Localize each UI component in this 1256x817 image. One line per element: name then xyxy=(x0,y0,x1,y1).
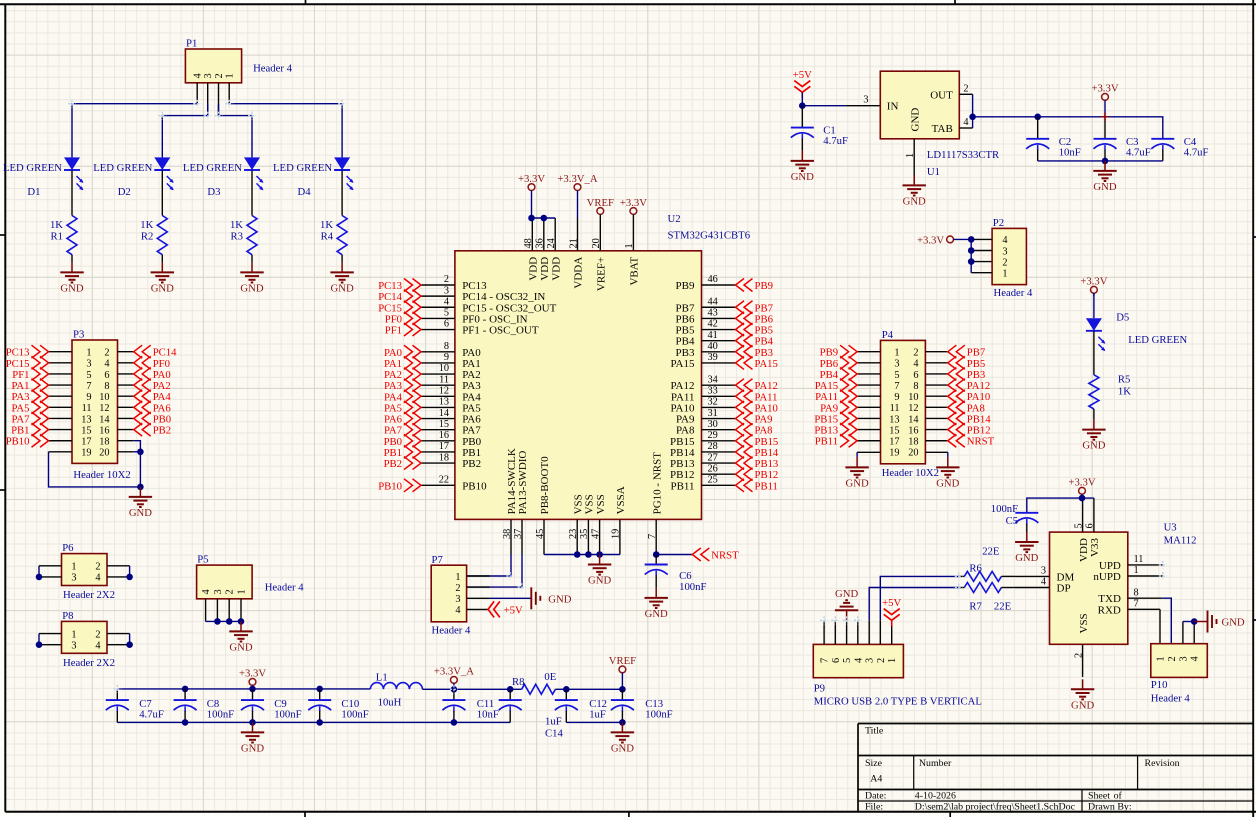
text MICRO USB 2.0 TYPE B VERTICAL xyxy=(814,696,982,708)
svg-text:5: 5 xyxy=(894,370,899,381)
net label PB12 xyxy=(736,468,779,482)
net label PA11 xyxy=(736,390,778,404)
text Header 4 xyxy=(1151,693,1191,705)
power port +3.3V xyxy=(518,173,545,218)
svg-text:R2: R2 xyxy=(141,231,153,243)
svg-text:4: 4 xyxy=(1190,656,1201,661)
text LED GREEN xyxy=(3,162,62,174)
svg-text:D5: D5 xyxy=(1116,312,1129,324)
svg-text:LD1117S33CTR: LD1117S33CTR xyxy=(927,149,1000,161)
junction xyxy=(968,247,975,254)
svg-text:D:\sem2\lab project\freq\Sheet: D:\sem2\lab project\freq\Sheet1.SchDoc xyxy=(915,802,1076,813)
wire xyxy=(116,689,118,700)
svg-text:C5: C5 xyxy=(1006,515,1018,527)
pin P4.6 xyxy=(925,373,947,375)
pin U2.44 PB7 xyxy=(676,296,736,314)
junction xyxy=(653,551,660,558)
svg-text:2: 2 xyxy=(104,348,109,359)
junction xyxy=(238,618,245,625)
net label PA7 xyxy=(11,412,48,426)
pin P3.11 xyxy=(49,406,73,408)
pin P2.2 xyxy=(971,261,992,263)
text Drawn By xyxy=(1088,802,1132,813)
wire xyxy=(655,575,657,588)
pin P3.13 xyxy=(49,417,73,419)
pin P3.9 xyxy=(49,395,73,397)
pin U3.2 VSS xyxy=(1073,613,1089,677)
junction xyxy=(619,719,626,726)
svg-text:20: 20 xyxy=(591,238,602,248)
svg-text:10nF: 10nF xyxy=(1059,146,1081,158)
svg-text:10: 10 xyxy=(908,392,918,403)
net label PB12 xyxy=(948,423,991,437)
wire xyxy=(49,452,141,487)
svg-text:2: 2 xyxy=(1167,656,1178,661)
text U2 xyxy=(668,213,681,225)
power port +3.3V xyxy=(1091,83,1118,117)
svg-text:VSSA: VSSA xyxy=(615,486,627,514)
capacitor C4 xyxy=(1151,136,1208,159)
net label PA4 xyxy=(384,390,421,404)
pin P6.3 xyxy=(39,576,62,578)
text D2 xyxy=(118,186,131,198)
net label PB11 xyxy=(736,479,778,493)
svg-text:VDDA: VDDA xyxy=(573,257,585,289)
wire xyxy=(970,239,972,272)
svg-text:13: 13 xyxy=(439,397,449,408)
svg-text:2: 2 xyxy=(913,348,918,359)
text Header 4 xyxy=(994,287,1034,299)
wire xyxy=(801,92,803,105)
text D3 xyxy=(207,186,220,198)
svg-text:R8: R8 xyxy=(512,676,524,688)
svg-text:35: 35 xyxy=(579,529,590,539)
pin P4.13 xyxy=(857,417,880,419)
svg-text:P1: P1 xyxy=(186,38,197,50)
pin P8.3 xyxy=(39,644,62,646)
pin P3.20 xyxy=(118,451,134,453)
power port +3.3V_A xyxy=(557,173,597,218)
svg-text:44: 44 xyxy=(708,296,718,307)
wire xyxy=(1104,117,1106,139)
svg-text:4: 4 xyxy=(853,658,864,663)
svg-text:R7: R7 xyxy=(969,600,982,612)
svg-text:4: 4 xyxy=(444,296,449,307)
wire xyxy=(453,711,455,722)
svg-text:1: 1 xyxy=(887,658,898,663)
pin U2.6 PF1 - OSC_OUT xyxy=(421,319,539,337)
capacitor C13 xyxy=(611,698,673,721)
svg-text:3: 3 xyxy=(86,359,91,370)
svg-text:3: 3 xyxy=(865,658,876,663)
wire xyxy=(162,104,207,158)
svg-text:Header 4: Header 4 xyxy=(432,625,472,637)
svg-text:3: 3 xyxy=(1178,656,1189,661)
pin U2.31 PA9 xyxy=(676,408,736,426)
svg-text:VDD: VDD xyxy=(528,257,540,281)
power port +3.3V xyxy=(239,668,266,689)
net label PB11 xyxy=(815,434,857,448)
net label PB15 xyxy=(814,412,857,426)
svg-text:8: 8 xyxy=(444,341,449,352)
wire xyxy=(116,711,118,722)
svg-text:8: 8 xyxy=(1134,587,1139,598)
svg-text:1: 1 xyxy=(1002,269,1007,280)
pin P9.7 xyxy=(823,620,825,644)
svg-text:Header 4: Header 4 xyxy=(1151,693,1191,705)
text Header 2X2 xyxy=(63,657,115,669)
connector P2 xyxy=(992,217,1026,285)
pin U3.8 TXD xyxy=(1098,587,1163,605)
svg-text:Header 4: Header 4 xyxy=(994,287,1034,299)
pin P3.12 xyxy=(118,406,134,408)
ground xyxy=(1015,532,1039,564)
wire xyxy=(134,441,141,487)
resistor R1 xyxy=(50,216,77,255)
pin P1.1 xyxy=(228,83,230,104)
pin P3.8 xyxy=(118,384,134,386)
svg-text:PB11: PB11 xyxy=(755,480,778,492)
wire xyxy=(1159,609,1161,643)
ground xyxy=(240,262,264,294)
pin P4.15 xyxy=(857,429,880,431)
pin P3.19 xyxy=(49,451,73,453)
svg-text:PF1 - OSC_OUT: PF1 - OSC_OUT xyxy=(462,325,539,337)
capacitor C3 xyxy=(1094,136,1151,159)
svg-text:7: 7 xyxy=(820,658,831,663)
net label PA2 xyxy=(134,379,171,393)
wire xyxy=(129,566,131,577)
svg-text:41: 41 xyxy=(708,330,718,341)
text Date xyxy=(865,790,886,801)
text D5 xyxy=(1116,312,1129,324)
pin P10.4 xyxy=(1193,622,1195,644)
svg-text:1: 1 xyxy=(455,572,460,583)
text Header 2X2 xyxy=(63,589,115,601)
svg-text:14: 14 xyxy=(99,414,109,425)
svg-text:PB10: PB10 xyxy=(378,480,402,492)
svg-text:GND: GND xyxy=(611,742,634,754)
pin P4.8 xyxy=(925,384,947,386)
svg-text:GND: GND xyxy=(229,641,252,653)
svg-text:GND: GND xyxy=(1222,617,1245,629)
svg-text:9: 9 xyxy=(894,392,899,403)
wire xyxy=(341,170,343,215)
text LED GREEN xyxy=(1128,334,1187,346)
svg-text:39: 39 xyxy=(708,352,718,363)
svg-text:4: 4 xyxy=(95,573,100,584)
wire xyxy=(72,104,197,158)
capacitor C10 xyxy=(308,698,369,721)
pin P7.4 xyxy=(467,608,489,610)
svg-text:0E: 0E xyxy=(544,671,556,683)
text Header 4 xyxy=(432,625,472,637)
pin U3.1 nUPD xyxy=(1093,565,1162,583)
svg-text:15: 15 xyxy=(439,419,449,430)
svg-text:7: 7 xyxy=(86,381,91,392)
pin P2.3 xyxy=(971,250,992,252)
pin P2.4 xyxy=(971,238,992,240)
svg-text:6: 6 xyxy=(104,370,109,381)
svg-text:6: 6 xyxy=(1085,523,1096,528)
capacitor C11 xyxy=(442,698,498,721)
text U3 xyxy=(1164,522,1177,534)
svg-text:GND: GND xyxy=(588,575,611,587)
svg-text:GND: GND xyxy=(548,593,571,605)
pin P1.4 xyxy=(196,83,198,104)
svg-text:3: 3 xyxy=(894,359,899,370)
svg-text:1: 1 xyxy=(71,562,76,573)
svg-text:PF1: PF1 xyxy=(385,325,402,337)
pin P4.9 xyxy=(857,395,880,397)
svg-text:100nF: 100nF xyxy=(207,709,234,721)
svg-text:11: 11 xyxy=(1134,554,1144,565)
svg-text:P7: P7 xyxy=(432,554,444,566)
svg-text:4: 4 xyxy=(201,589,212,594)
pin U2.2 PC13 xyxy=(421,274,487,292)
svg-text:22E: 22E xyxy=(982,545,999,557)
pin U2.7 PG10 - NRST xyxy=(647,452,663,555)
svg-text:16: 16 xyxy=(439,430,449,441)
svg-text:24: 24 xyxy=(546,238,557,248)
svg-text:100nF: 100nF xyxy=(645,709,672,721)
svg-text:3: 3 xyxy=(455,594,460,605)
svg-text:nUPD: nUPD xyxy=(1093,571,1121,583)
wire xyxy=(134,451,141,453)
junction xyxy=(36,574,43,581)
pin P4.19 xyxy=(857,451,880,453)
pin U3.11 UPD xyxy=(1099,554,1163,572)
svg-text:48: 48 xyxy=(523,238,534,248)
svg-text:33: 33 xyxy=(708,386,718,397)
pin P4.16 xyxy=(925,429,947,431)
net label PB2 xyxy=(134,423,171,437)
pin P4.11 xyxy=(857,406,880,408)
net label PB2 xyxy=(384,457,421,471)
wire xyxy=(565,689,567,700)
wire xyxy=(251,255,253,263)
net label PB0 xyxy=(384,434,421,448)
svg-text:2: 2 xyxy=(95,629,100,640)
wire xyxy=(1183,621,1194,623)
net label PA9 xyxy=(736,412,773,426)
capacitor C5 xyxy=(991,503,1039,527)
ground xyxy=(845,457,869,489)
svg-text:OUT: OUT xyxy=(930,89,953,101)
wire xyxy=(1162,150,1164,161)
text date value xyxy=(915,790,956,801)
pin P3.17 xyxy=(49,440,73,442)
wire xyxy=(38,634,40,645)
svg-text:GND: GND xyxy=(1071,699,1094,711)
svg-text:11: 11 xyxy=(890,403,900,414)
svg-text:LED GREEN: LED GREEN xyxy=(183,162,242,174)
svg-text:P9: P9 xyxy=(814,683,825,695)
wire xyxy=(206,620,241,622)
svg-text:7: 7 xyxy=(1134,599,1139,610)
net label PB9 xyxy=(736,279,773,293)
net label PA5 xyxy=(384,401,421,415)
svg-text:PG10 - NRST: PG10 - NRST xyxy=(651,452,663,515)
wire bottom rail 2 xyxy=(566,721,622,723)
wire xyxy=(655,555,657,565)
svg-text:L1: L1 xyxy=(376,672,388,684)
svg-text:4: 4 xyxy=(95,641,100,652)
junction xyxy=(126,574,133,581)
net label PA12 xyxy=(948,379,990,393)
text MA112 xyxy=(1164,535,1197,547)
svg-text:PA13-SWDIO: PA13-SWDIO xyxy=(517,451,529,515)
pin U2.12 PA4 xyxy=(421,386,481,404)
svg-text:9: 9 xyxy=(444,352,449,363)
svg-text:VREF: VREF xyxy=(609,655,636,667)
text File xyxy=(865,802,883,813)
svg-text:PB2: PB2 xyxy=(153,425,171,437)
net label PA7 xyxy=(384,423,421,437)
net label PB4 xyxy=(736,334,774,348)
text U1 xyxy=(927,166,940,178)
wire xyxy=(341,255,343,263)
svg-text:5: 5 xyxy=(1073,523,1084,528)
svg-text:4: 4 xyxy=(1002,235,1007,246)
junction xyxy=(1191,618,1198,625)
wire xyxy=(422,688,521,690)
svg-text:3: 3 xyxy=(1041,566,1046,577)
pin P3.2 xyxy=(118,351,134,353)
wire xyxy=(161,170,163,215)
microcontroller U2 STM32G431CBT6 xyxy=(455,251,702,520)
pin U2.33 PA11 xyxy=(671,386,736,404)
connector P1 xyxy=(185,38,241,83)
wire xyxy=(251,170,253,215)
svg-text:32: 32 xyxy=(708,397,718,408)
svg-text:4.7uF: 4.7uF xyxy=(1126,146,1151,158)
svg-text:5: 5 xyxy=(444,308,449,319)
svg-text:47: 47 xyxy=(590,529,601,539)
text Header 10X2 xyxy=(882,467,939,479)
net label PC15 xyxy=(6,356,49,370)
svg-text:GND: GND xyxy=(151,282,174,294)
wire xyxy=(184,711,186,722)
pin P4.5 xyxy=(857,373,880,375)
LED D3 xyxy=(244,157,263,190)
svg-text:13: 13 xyxy=(81,414,91,425)
junction xyxy=(214,618,221,625)
svg-text:GND: GND xyxy=(936,477,959,489)
svg-text:4.7uF: 4.7uF xyxy=(1184,146,1209,158)
net label PB5 xyxy=(948,356,985,370)
wire xyxy=(621,711,623,722)
pin U2.41 PB4 xyxy=(676,330,736,348)
pin U3.4 DP xyxy=(1014,577,1070,595)
ground xyxy=(241,722,265,754)
resistor R7 xyxy=(959,583,1015,613)
net label PA12 xyxy=(736,379,778,393)
net label PC13 xyxy=(378,279,421,293)
svg-text:PB8-BOOT0: PB8-BOOT0 xyxy=(539,456,551,515)
pin U2.23 VSS xyxy=(568,494,584,554)
junction xyxy=(316,719,323,726)
wire xyxy=(319,711,321,722)
pin P4.2 xyxy=(925,351,947,353)
capacitor C14 xyxy=(499,700,564,739)
connector P7 xyxy=(431,554,466,622)
pin P4.12 xyxy=(925,406,947,408)
svg-text:1: 1 xyxy=(71,629,76,640)
pin P3.4 xyxy=(118,362,134,364)
junction xyxy=(182,686,189,693)
pin U1.4 xyxy=(959,117,972,128)
svg-text:VREF: VREF xyxy=(587,197,614,209)
svg-text:+3.3V: +3.3V xyxy=(239,668,266,680)
net label PA8 xyxy=(948,401,985,415)
net label PB5 xyxy=(736,323,773,337)
net label PB10 xyxy=(6,434,49,448)
svg-text:8: 8 xyxy=(104,381,109,392)
connector P5 xyxy=(197,554,253,599)
pin U2.45 PB8-BOOT0 xyxy=(535,456,551,555)
svg-text:6: 6 xyxy=(913,370,918,381)
wire xyxy=(1037,117,1039,139)
net label PF0 xyxy=(134,356,170,370)
svg-text:1: 1 xyxy=(1156,656,1167,661)
net label PB9 xyxy=(820,345,857,359)
ground xyxy=(1071,679,1095,711)
pin P4.20 xyxy=(925,451,947,453)
svg-text:4: 4 xyxy=(104,359,109,370)
junction xyxy=(596,551,603,558)
power port VREF xyxy=(609,655,636,689)
svg-text:+5V: +5V xyxy=(504,605,523,617)
ground xyxy=(645,588,669,620)
svg-text:Header 2X2: Header 2X2 xyxy=(63,657,115,669)
resistor R2 xyxy=(140,216,167,255)
svg-text:7: 7 xyxy=(894,381,899,392)
svg-text:12: 12 xyxy=(908,403,918,414)
pin P2.1 xyxy=(971,272,992,274)
pin P4.18 xyxy=(925,440,947,442)
svg-text:GND: GND xyxy=(60,282,83,294)
net label PA11 xyxy=(815,390,857,404)
svg-text:19: 19 xyxy=(611,529,622,539)
svg-text:40: 40 xyxy=(708,341,718,352)
svg-text:GND: GND xyxy=(1082,440,1105,452)
svg-text:D4: D4 xyxy=(298,186,312,198)
svg-text:IN: IN xyxy=(887,101,899,113)
svg-text:P3: P3 xyxy=(73,329,84,341)
svg-text:3: 3 xyxy=(444,285,449,296)
svg-text:4.7uF: 4.7uF xyxy=(139,709,164,721)
wire xyxy=(544,554,620,556)
svg-text:1: 1 xyxy=(624,243,635,248)
net label PB15 xyxy=(736,434,779,448)
svg-text:9: 9 xyxy=(86,392,91,403)
junction xyxy=(226,618,233,625)
ground xyxy=(1082,420,1106,452)
svg-text:P6: P6 xyxy=(62,542,74,554)
pin U2.9 PA1 xyxy=(421,352,481,370)
svg-text:PB9: PB9 xyxy=(755,280,773,292)
svg-text:A4: A4 xyxy=(870,774,882,785)
wire xyxy=(229,104,342,158)
ground xyxy=(588,555,612,587)
junction xyxy=(528,215,535,222)
svg-text:4-10-2026: 4-10-2026 xyxy=(915,790,956,801)
LED D1 xyxy=(64,157,83,190)
net label PB6 xyxy=(736,312,774,326)
net label PC15 xyxy=(378,301,421,315)
pin P7.1 xyxy=(467,575,490,577)
